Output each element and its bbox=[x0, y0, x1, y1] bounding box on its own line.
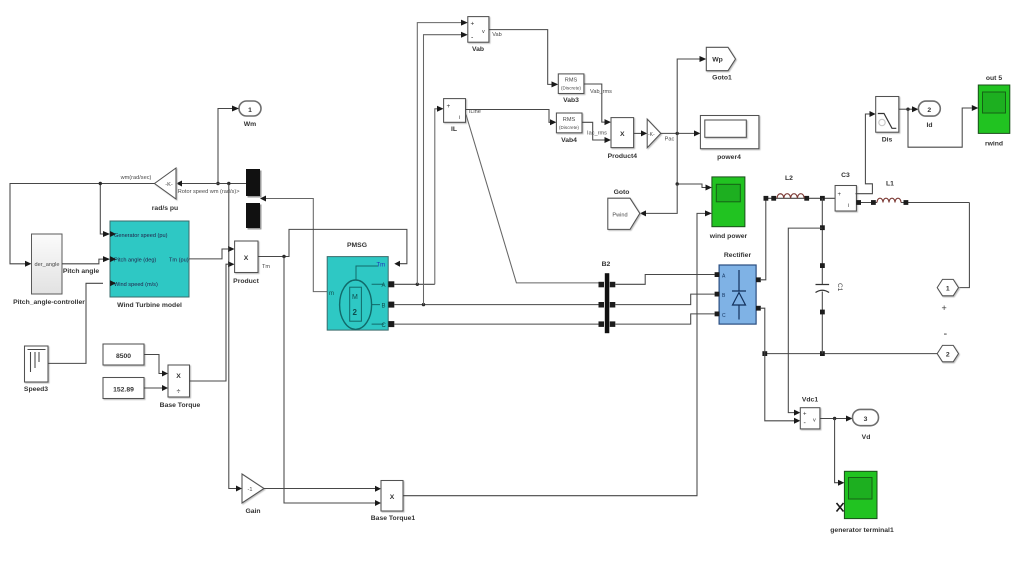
gain rad/s pu bbox=[152, 168, 178, 212]
measurement B2 bbox=[599, 261, 616, 333]
wire Tm down to Base Torque1 bbox=[284, 257, 381, 507]
label plus bbox=[942, 303, 947, 313]
wire IL series diagonal to B2 bbox=[466, 115, 599, 283]
constant 8500 bbox=[103, 344, 144, 365]
svg-text:+: + bbox=[471, 21, 475, 28]
capacitor C1 bbox=[816, 198, 844, 353]
svg-text:M: M bbox=[352, 294, 358, 301]
wire rotor speed down to Gain bbox=[229, 184, 242, 492]
wire rotor speed to outport Wm bbox=[216, 106, 239, 186]
wire 152.89 to Base Torque bbox=[144, 385, 168, 391]
svg-text:i: i bbox=[848, 203, 849, 209]
svg-text:PMSG: PMSG bbox=[347, 242, 367, 249]
wire gain output to generator speed input bbox=[99, 182, 110, 237]
svg-text:Pitch_angle-controller: Pitch_angle-controller bbox=[13, 299, 85, 306]
wire 8500 to Base Torque bbox=[144, 355, 168, 377]
wire Base Torque to Product bbox=[190, 261, 235, 381]
svg-text:Base Torque1: Base Torque1 bbox=[371, 515, 416, 522]
voltage measurement Vab bbox=[468, 17, 489, 53]
wire Base Torque1 to wind power scope bbox=[403, 210, 712, 495]
svg-text:power4: power4 bbox=[717, 154, 741, 161]
svg-text:152.89: 152.89 bbox=[113, 387, 134, 394]
dc bottom rail bbox=[762, 351, 937, 356]
product Product4 bbox=[608, 118, 638, 160]
svg-text:generator terminal1: generator terminal1 bbox=[830, 527, 894, 534]
svg-text:der_angle: der_angle bbox=[35, 262, 60, 268]
machine PMSG bbox=[327, 242, 388, 330]
svg-text:1: 1 bbox=[248, 107, 252, 114]
wire phase A up to Vab + bbox=[417, 20, 468, 285]
rms Vab4 bbox=[556, 113, 582, 144]
svg-text:Rectifier: Rectifier bbox=[724, 252, 752, 259]
wire Speed3 to wind speed input bbox=[48, 283, 103, 363]
connection port 1 bbox=[937, 279, 958, 295]
constant 152.89 bbox=[103, 378, 144, 399]
svg-text:Pac: Pac bbox=[665, 137, 675, 143]
svg-text:Tm: Tm bbox=[262, 264, 270, 270]
rectifier bbox=[715, 252, 761, 324]
wire Pac to display power4 bbox=[661, 130, 701, 142]
wire pitch angle bbox=[62, 256, 110, 275]
svg-text:C: C bbox=[722, 313, 726, 319]
svg-text:m: m bbox=[329, 291, 334, 297]
svg-text:Vab3: Vab3 bbox=[563, 97, 579, 104]
svg-text:-1: -1 bbox=[248, 487, 253, 493]
svg-text:÷: ÷ bbox=[177, 388, 181, 395]
dc top rail bbox=[764, 196, 836, 201]
svg-text:2: 2 bbox=[927, 107, 931, 114]
svg-text:wm(rad/sec): wm(rad/sec) bbox=[120, 175, 152, 181]
svg-text:out 5: out 5 bbox=[986, 75, 1002, 82]
wire B2 B to rectifier bbox=[615, 294, 714, 305]
svg-text:2: 2 bbox=[946, 352, 950, 359]
svg-text:X: X bbox=[620, 131, 625, 138]
wire Vab3 to Product4 bbox=[584, 84, 611, 125]
product Base Torque1 bbox=[371, 481, 416, 523]
svg-text:X: X bbox=[244, 255, 249, 262]
svg-text:Speed3: Speed3 bbox=[24, 386, 48, 393]
svg-text:-: - bbox=[944, 328, 948, 340]
wire bus selector to gain rad/s pu bbox=[176, 181, 246, 187]
subsystem Pitch_angle-controller bbox=[13, 234, 85, 306]
wire Vdc down to generator terminal scope bbox=[835, 419, 845, 486]
svg-text:-K-: -K- bbox=[165, 182, 173, 188]
svg-text:B: B bbox=[382, 304, 386, 310]
wire B2 C to rectifier bbox=[615, 314, 714, 324]
svg-text:-K-: -K- bbox=[648, 132, 655, 138]
wire PMSG m to bus selector bbox=[260, 196, 327, 292]
wire Vdc+ sense bbox=[788, 228, 822, 416]
wire C3 i output up to Dis bbox=[856, 111, 876, 194]
svg-text:Goto1: Goto1 bbox=[712, 75, 732, 82]
label wm(rad/sec) bbox=[120, 175, 152, 181]
outport 3 Vd bbox=[853, 409, 879, 441]
inductor L2 bbox=[777, 175, 804, 198]
svg-text:v: v bbox=[813, 418, 816, 424]
svg-text:2: 2 bbox=[353, 308, 358, 317]
wire phase B up to Vab - bbox=[424, 32, 468, 305]
signal label Rotor speed wm bbox=[175, 189, 240, 195]
svg-text:Tm (pu): Tm (pu) bbox=[169, 258, 189, 264]
product Product bbox=[233, 241, 259, 285]
svg-text:L2: L2 bbox=[785, 175, 793, 182]
scope generator terminal1 bbox=[830, 471, 894, 534]
svg-text:Wind speed (m/s): Wind speed (m/s) bbox=[114, 282, 158, 288]
scope rwind out 5 bbox=[978, 75, 1010, 148]
svg-text:+: + bbox=[803, 412, 807, 418]
outport 2 Id bbox=[918, 101, 940, 129]
goto Pwind bbox=[608, 189, 640, 229]
wire B2 A to rectifier bbox=[615, 275, 714, 285]
svg-text:3: 3 bbox=[864, 416, 868, 423]
svg-text:8500: 8500 bbox=[116, 353, 131, 360]
svg-text:Vdc1: Vdc1 bbox=[802, 397, 818, 404]
svg-text:B2: B2 bbox=[602, 261, 611, 268]
label iLine bbox=[469, 109, 481, 115]
wire IL i to RMS Vab4 bbox=[466, 110, 557, 126]
svg-text:rwind: rwind bbox=[985, 141, 1003, 148]
gain Gain -1 bbox=[242, 474, 264, 515]
label minus bbox=[944, 328, 948, 340]
bus selector (flipped) bbox=[246, 169, 262, 230]
svg-text:Wind Turbine model: Wind Turbine model bbox=[117, 302, 182, 309]
svg-text:Base Torque: Base Torque bbox=[160, 402, 201, 409]
svg-text:(Discrete): (Discrete) bbox=[559, 125, 579, 130]
inductor L1 bbox=[861, 181, 969, 205]
svg-text:Tm: Tm bbox=[377, 263, 386, 269]
goto Wp bbox=[706, 47, 735, 81]
svg-text:A: A bbox=[382, 283, 386, 289]
svg-text:Pitch angle (deg): Pitch angle (deg) bbox=[114, 258, 156, 264]
svg-text:1: 1 bbox=[946, 286, 950, 293]
wire Dis to scope rwind bbox=[908, 105, 978, 147]
transfer Dis bbox=[876, 97, 899, 144]
svg-text:wind power: wind power bbox=[709, 233, 748, 240]
rms Vab3 bbox=[558, 74, 584, 104]
PMSG phase port squares bbox=[388, 281, 394, 327]
svg-text:Vab: Vab bbox=[492, 32, 502, 38]
svg-text:i: i bbox=[459, 115, 460, 121]
gain -K- Pac bbox=[647, 119, 661, 148]
wire phase C to B2 bbox=[394, 323, 598, 325]
scope wind power bbox=[709, 177, 748, 240]
svg-text:C1: C1 bbox=[836, 283, 843, 292]
label Vab signal bbox=[492, 32, 502, 38]
wire Product4 to gain bbox=[634, 130, 648, 136]
display power4 bbox=[700, 116, 759, 162]
svg-text:Product: Product bbox=[233, 278, 259, 285]
wire turbine Tm(pu) to Product bbox=[189, 246, 235, 259]
label Vab_rms bbox=[590, 89, 612, 95]
svg-text:Id: Id bbox=[926, 122, 932, 129]
wire gain output to pitch controller bbox=[10, 184, 155, 267]
wire Pac down to wind power scope bbox=[676, 133, 712, 190]
label Tm bbox=[262, 264, 270, 270]
svg-text:IL: IL bbox=[451, 126, 457, 133]
svg-text:Wm: Wm bbox=[244, 121, 256, 128]
label Iac_rms bbox=[587, 131, 607, 137]
svg-text:Gain: Gain bbox=[245, 508, 260, 515]
svg-text:Generator speed (pu): Generator speed (pu) bbox=[114, 233, 168, 239]
wire Vdc1 to outport Vd bbox=[820, 416, 853, 422]
svg-text:X: X bbox=[176, 373, 181, 380]
svg-text:Product4: Product4 bbox=[608, 153, 638, 160]
svg-text:Pitch angle: Pitch angle bbox=[63, 268, 99, 275]
svg-text:C: C bbox=[382, 323, 387, 329]
wire Vdc- sense bbox=[765, 354, 801, 424]
svg-text:Vab: Vab bbox=[472, 46, 484, 53]
wire Pac up to Goto Wp bbox=[677, 56, 706, 133]
svg-text:rad/s pu: rad/s pu bbox=[152, 205, 178, 212]
svg-text:C3: C3 bbox=[841, 172, 850, 179]
wire to Goto Pwind bbox=[640, 184, 677, 216]
svg-text:X: X bbox=[390, 494, 395, 501]
svg-text:(Discrete): (Discrete) bbox=[561, 86, 581, 91]
wire Vab4 to Product4 bbox=[582, 122, 611, 143]
svg-text:+: + bbox=[838, 192, 842, 198]
svg-text:Vd: Vd bbox=[862, 434, 871, 441]
unconnected port X mark bbox=[837, 503, 844, 512]
subsystem Wind Turbine model bbox=[110, 221, 189, 309]
wire phase A bbox=[394, 283, 435, 286]
svg-text:Pwind: Pwind bbox=[612, 213, 627, 219]
outport 1 Wm bbox=[239, 101, 261, 128]
svg-text:Vab4: Vab4 bbox=[561, 137, 577, 144]
svg-text:Wp: Wp bbox=[712, 57, 723, 64]
svg-text:RMS: RMS bbox=[563, 117, 576, 123]
wire phase B to B2 bbox=[394, 303, 598, 306]
wire L1 to port 1 bbox=[959, 203, 970, 288]
svg-text:Dis: Dis bbox=[882, 137, 893, 144]
svg-text:v: v bbox=[482, 29, 485, 35]
wire Dis to outport Id bbox=[899, 106, 919, 112]
wire Product output to PMSG Tm bbox=[258, 229, 407, 266]
wire Vab to RMS Vab3 bbox=[489, 30, 558, 88]
wire rectifier - down bbox=[761, 308, 765, 353]
current measurement IL bbox=[444, 99, 466, 133]
svg-text:+: + bbox=[447, 103, 451, 110]
wire Gain to Base Torque1 bbox=[264, 486, 381, 492]
svg-text:<Rotor speed wm (rad/s)>: <Rotor speed wm (rad/s)> bbox=[175, 189, 240, 195]
svg-text:Goto: Goto bbox=[614, 189, 630, 196]
voltage measurement Vdc1 bbox=[800, 397, 820, 429]
wire phase A up to IL bbox=[435, 106, 444, 284]
svg-text:RMS: RMS bbox=[565, 78, 578, 84]
svg-text:Vab_rms: Vab_rms bbox=[590, 89, 612, 95]
source Speed3 bbox=[24, 346, 48, 393]
current measurement C3 bbox=[835, 172, 861, 211]
svg-text:L1: L1 bbox=[886, 181, 894, 188]
wire rectifier + up to dc rail bbox=[761, 198, 766, 279]
connection port 2 bbox=[937, 345, 958, 361]
divide Base Torque bbox=[160, 365, 201, 409]
svg-text:+: + bbox=[942, 303, 947, 313]
svg-text:Iac_rms: Iac_rms bbox=[587, 131, 607, 137]
